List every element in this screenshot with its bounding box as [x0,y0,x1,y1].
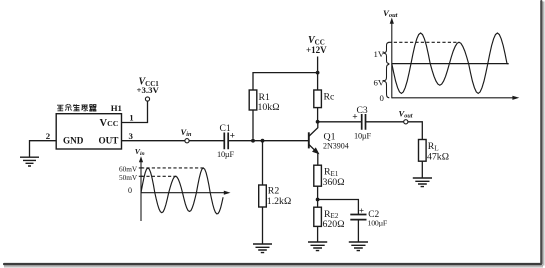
junction node emitter divider [316,198,320,202]
svg-text:GND: GND [63,135,84,145]
resistor R1 [249,90,257,110]
svg-text:+: + [359,206,364,216]
figure right border shadow [540,0,542,265]
svg-text:47kΩ: 47kΩ [427,151,449,162]
svg-text:6V: 6V [374,78,385,88]
capacitor C2 [350,215,366,220]
Vin plot y-axis [140,160,142,221]
resistor RE1 [314,165,322,186]
resistor RL [419,140,427,162]
node Vout circle [404,120,408,124]
junction node VCC rail [316,71,320,75]
svg-text:2: 2 [46,131,51,141]
svg-text:OUT: OUT [99,135,119,145]
ground (C2) [349,242,368,251]
ground (hall sensor GND) [20,157,39,166]
node Vin circle [185,139,189,143]
ground (R2) [253,244,272,253]
junction node collector [316,120,320,124]
Vout plot dashed peak level [388,41,459,43]
svg-text:Vout: Vout [399,108,413,119]
Vin waveform plot [139,156,231,221]
ground (RL) [413,178,432,187]
Vin plot sine curve [141,168,223,214]
svg-text:1V: 1V [374,49,385,59]
resistor RE2 [317,200,319,208]
wire collector to C3 [318,121,362,123]
capacitor C1 [224,133,228,150]
wire divider to C2 [318,200,359,215]
svg-text:1: 1 [129,112,133,122]
svg-text:2N3904: 2N3904 [323,141,349,150]
svg-text:C3: C3 [357,105,368,116]
svg-text:+3.3V: +3.3V [137,85,160,95]
svg-text:VCC: VCC [100,118,119,129]
svg-text:3: 3 [129,131,134,141]
Vout plot DC level line [392,63,509,65]
terminal circle VCC1 [145,97,149,101]
label 霍尔传感器 (drawn glyphs) [57,104,96,111]
junction node base/R1 [251,139,255,143]
svg-text:10µF: 10µF [354,132,371,141]
wire C3 to Vout and RL [366,122,423,140]
junction node base/R2 [261,139,265,143]
svg-text:Vin: Vin [135,147,145,157]
resistor R2 [262,141,264,185]
capacitor C3 [362,114,366,130]
Vin plot x-axis [141,192,227,194]
Vout plot sine curve [392,33,509,93]
wire pin2 to ground [30,141,57,158]
svg-text:0: 0 [380,93,385,103]
svg-text:R2: R2 [268,185,280,196]
wire OUT to base (main signal line) [122,140,309,142]
wire pin1 to +3.3V terminal [122,101,148,122]
svg-text:Vout: Vout [383,8,398,19]
Vin plot dashed 60mV level [141,167,205,169]
svg-text:100µF: 100µF [368,218,388,227]
svg-text:Rc: Rc [324,92,336,103]
Vout plot x-axis [392,97,515,99]
svg-text:10kΩ: 10kΩ [258,102,280,113]
VCC rail wire [253,57,318,91]
resistor Rc [314,90,322,108]
ground (RE2) [308,242,327,251]
svg-text:620Ω: 620Ω [323,219,345,230]
Vout plot y-axis [391,22,393,98]
hall sensor U H1 box [56,114,121,149]
svg-text:360Ω: 360Ω [323,177,345,188]
svg-text:0: 0 [128,186,132,195]
svg-text:H1: H1 [111,103,122,113]
svg-text:+: + [230,132,235,142]
svg-text:+: + [352,113,357,123]
Vin plot dashed 50mV level [141,175,178,177]
transistor Q1 [309,122,319,165]
Vout waveform plot [383,18,520,100]
Vout plot brace 6V [383,64,390,98]
Vout plot brace 1V [383,42,390,63]
svg-text:50mV: 50mV [119,173,138,182]
svg-text:10µF: 10µF [217,150,234,159]
svg-text:+12V: +12V [306,45,327,55]
svg-text:Vin: Vin [181,127,192,138]
svg-text:1.2kΩ: 1.2kΩ [267,196,291,207]
Vin plot ticks [139,168,143,176]
